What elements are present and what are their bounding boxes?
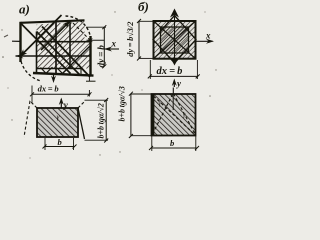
dashed sphere arc bottom-left (fig a) <box>20 57 41 82</box>
slanted solid right edge <box>78 108 85 139</box>
dashed lambda right <box>174 95 195 134</box>
leader line y=40 with small arrow (fig a) <box>87 39 105 41</box>
dashed extension top-right corner <box>78 102 85 109</box>
svg-text:dy = b: dy = b <box>97 45 107 68</box>
hatched inner rect (fig b) <box>161 27 189 53</box>
svg-text:γ: γ <box>183 112 186 119</box>
dashed left edge of sheared shape <box>24 101 30 137</box>
square a: bottom edge <box>33 73 94 76</box>
vertical centre line with arrows (fig b) <box>174 10 176 62</box>
svg-text:dy = b√3/2: dy = b√3/2 <box>126 22 135 57</box>
hatched rect (bottom-left fig) <box>37 108 78 137</box>
y axis arrow below square (fig a) <box>53 74 55 81</box>
inner vertical line x=70 (fig a) <box>69 21 71 69</box>
inner horizontal line y=68.5 (fig a) <box>37 68 82 70</box>
svg-text:b: b <box>58 137 62 147</box>
diagonal \ middle (fig a) <box>37 32 81 76</box>
square a: left edge <box>19 22 21 62</box>
dimension b under bottom-left fig <box>45 146 75 148</box>
hatch of section (fig a) <box>37 22 85 69</box>
hatched rect (bottom-right fig) <box>152 94 196 136</box>
svg-text:b+b tgα/√2: b+b tgα/√2 <box>97 103 106 138</box>
diagonal / short bottom-right (fig a) <box>63 46 91 74</box>
y axis arrow below dx dimension (fig a) <box>60 99 62 109</box>
diagonal / with arrow upper-right (fig a) <box>41 21 71 51</box>
svg-text:x: x <box>111 38 117 48</box>
svg-text:b: b <box>170 138 174 148</box>
thick left edge <box>151 94 154 136</box>
x axis label and arrow right of square (fig a) <box>104 48 119 50</box>
svg-text:b+b tgα/√3: b+b tgα/√3 <box>118 86 127 121</box>
dashed extension top-left corner <box>30 101 38 109</box>
svg-text:б): б) <box>138 0 149 14</box>
centre stub above rect <box>172 88 174 95</box>
dashed lambda left <box>153 95 173 135</box>
diagonal / with arrow lower-left (fig a) <box>20 15 62 57</box>
svg-text:x: x <box>205 31 211 41</box>
small V branch at x=62.5 (fig a) <box>57 68 63 73</box>
dashed backslash diagonal <box>154 96 194 134</box>
x axis (fig b) <box>197 40 213 42</box>
svg-text:dx = b: dx = b <box>38 84 59 94</box>
small V vertex on bottom edge (fig a) <box>41 68 47 74</box>
inner horizontal line y=41.7 (fig a) <box>37 41 91 43</box>
diamond (fig b) <box>153 16 196 64</box>
y axis arrow below fig b <box>173 81 175 88</box>
svg-text:γ: γ <box>159 100 162 107</box>
hatched element (fig b outer) <box>154 21 196 59</box>
inner vertical line x=56 (fig a) <box>55 20 57 74</box>
diagonal \ from top-left corner (fig a) <box>21 23 71 74</box>
diagonal \ lower (fig a) <box>42 27 90 78</box>
X diagonals (fig b) <box>154 21 196 59</box>
square a: right edge <box>89 36 91 76</box>
dashed sphere arc top-right (fig a) <box>66 16 91 41</box>
centre line inside rect <box>172 94 174 110</box>
inner vertical line x=36.5 (fig a) <box>36 32 38 75</box>
svg-text:dx = b: dx = b <box>157 66 183 77</box>
square a: top edge <box>21 20 85 23</box>
dimension b under bottom-right fig <box>151 147 197 149</box>
svg-text:y: y <box>176 79 182 89</box>
inner horizontal centre line y=56 with left arrow (fig a) <box>16 55 92 57</box>
dashed corner diagonal top-right (fig a) <box>73 23 90 40</box>
svg-text:а): а) <box>19 2 30 17</box>
left stub of y=41.7 line outside square (fig a) <box>12 40 21 42</box>
